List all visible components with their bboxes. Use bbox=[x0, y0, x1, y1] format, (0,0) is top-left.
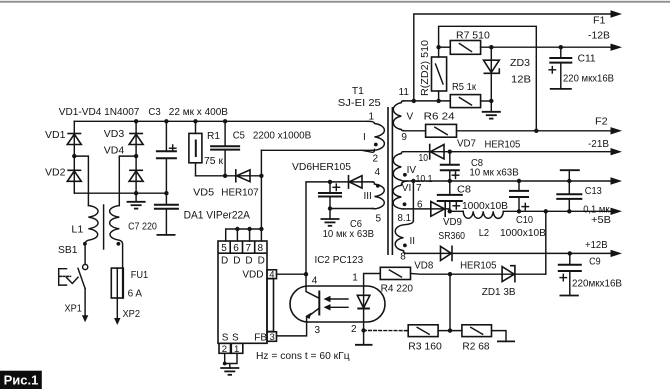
diode VD1 bbox=[67, 133, 81, 135]
wire divider vertical bbox=[449, 274, 451, 330]
svg-text:75 к: 75 к bbox=[204, 155, 223, 167]
wire winding II pin8 row bbox=[405, 252, 612, 254]
svg-text:8.1: 8.1 bbox=[398, 212, 412, 224]
svg-text:S: S bbox=[232, 333, 239, 344]
svg-text:VD2: VD2 bbox=[45, 166, 66, 178]
svg-text:4: 4 bbox=[375, 167, 381, 178]
zener ZD1 bbox=[502, 267, 514, 282]
svg-text:XP1: XP1 bbox=[65, 303, 82, 315]
wire F2 output bbox=[457, 130, 612, 132]
resistor R3 bbox=[407, 330, 408, 332]
resistor R(ZD2) 510 bbox=[438, 47, 440, 101]
ground (DA1 source) bbox=[220, 367, 239, 369]
wire F1 output bbox=[414, 14, 611, 101]
svg-text:D: D bbox=[258, 255, 265, 266]
node R4/R3 junction bbox=[448, 272, 452, 276]
svg-text:R2 68: R2 68 bbox=[462, 340, 489, 352]
node AC1 bbox=[72, 154, 76, 158]
plug XP1 bbox=[84, 289, 86, 317]
resistor R5 bbox=[450, 95, 480, 108]
svg-text:12В: 12В bbox=[511, 74, 531, 86]
resistor R7 bbox=[436, 45, 440, 49]
svg-text:C8: C8 bbox=[457, 183, 471, 195]
svg-text:7: 7 bbox=[416, 183, 422, 194]
terminal bar (opto pin2) bbox=[363, 330, 365, 344]
DA1 pin 1 box bbox=[231, 343, 243, 353]
svg-text:F2: F2 bbox=[595, 116, 608, 128]
winding VI (pins 7-6) bbox=[393, 181, 407, 209]
svg-text:VD8: VD8 bbox=[414, 260, 433, 272]
svg-text:1: 1 bbox=[369, 112, 375, 123]
svg-text:22 мк x 400В: 22 мк x 400В bbox=[169, 106, 228, 118]
node AC2 bbox=[134, 154, 138, 158]
wire dashed opto to R3 bbox=[364, 330, 407, 332]
svg-text:R1: R1 bbox=[207, 130, 220, 142]
svg-text:-12В: -12В bbox=[588, 30, 610, 42]
wire +5V rail bbox=[450, 210, 611, 212]
winding IV (pins 10-10.1) bbox=[393, 152, 403, 181]
wire DA1 drain pin bus bbox=[226, 229, 262, 241]
svg-text:HER105: HER105 bbox=[460, 260, 497, 272]
DA1 pin 3 box bbox=[267, 332, 277, 342]
DA1 right edge rectangle bbox=[267, 279, 274, 332]
svg-text:FU1: FU1 bbox=[131, 269, 149, 281]
svg-text:IC2 PC123: IC2 PC123 bbox=[315, 254, 364, 266]
wire bottom bus bbox=[74, 192, 166, 194]
svg-text:2: 2 bbox=[351, 324, 357, 335]
node VDD-opto pin4 bbox=[304, 272, 308, 276]
wire DA1 pin4 to opto pin4 bbox=[277, 274, 307, 286]
svg-text:0,1 мк: 0,1 мк bbox=[583, 204, 610, 216]
node bus-VD3 bbox=[134, 119, 138, 123]
svg-text:8: 8 bbox=[258, 243, 264, 254]
transformer core bbox=[387, 107, 389, 255]
inductor L2 bbox=[463, 211, 503, 218]
svg-text:XP2: XP2 bbox=[123, 308, 141, 320]
ground (C6) bbox=[329, 209, 331, 220]
resistor R1 bbox=[193, 119, 197, 123]
svg-text:1: 1 bbox=[352, 273, 358, 284]
wire primary return y150 bbox=[261, 149, 372, 151]
wire drain vertical bbox=[260, 150, 262, 229]
svg-text:ZD1 3В: ZD1 3В bbox=[482, 286, 516, 298]
svg-text:-21В: -21В bbox=[588, 138, 609, 150]
wire +5V sense to ZD1 bbox=[545, 211, 547, 274]
wire bridge right column bbox=[135, 121, 137, 193]
svg-text:C13: C13 bbox=[585, 185, 602, 197]
diode VD4 bbox=[129, 169, 143, 171]
svg-text:10 мк x 63В: 10 мк x 63В bbox=[323, 228, 374, 240]
wire winding IV pin10 row bbox=[404, 151, 612, 153]
wire opto pin3 to DA1 FB bbox=[277, 322, 307, 336]
svg-text:VD9: VD9 bbox=[443, 216, 462, 228]
ground (ZD3/R5) bbox=[482, 111, 501, 113]
diode VD3 bbox=[129, 133, 143, 135]
wire AC1 to L1 bbox=[74, 156, 88, 205]
capacitor C9 bbox=[568, 251, 572, 255]
svg-text:I: I bbox=[363, 132, 366, 143]
svg-text:R5 1к: R5 1к bbox=[452, 81, 476, 93]
node C6 top bbox=[328, 180, 332, 184]
svg-text:VD5: VD5 bbox=[193, 187, 214, 199]
svg-text:C7 220: C7 220 bbox=[128, 221, 157, 233]
wire winding III pin5 to ground node bbox=[330, 208, 373, 210]
svg-text:3: 3 bbox=[270, 332, 275, 343]
svg-text:C9: C9 bbox=[589, 256, 601, 268]
svg-text:D: D bbox=[221, 255, 228, 266]
svg-text:1000x10В: 1000x10В bbox=[500, 227, 546, 239]
svg-text:C11: C11 bbox=[578, 53, 596, 65]
svg-text:1000x10В: 1000x10В bbox=[462, 200, 508, 212]
node bottom-bus VD4 bbox=[134, 191, 138, 195]
svg-text:2200 x1000В: 2200 x1000В bbox=[253, 130, 311, 142]
diode VD2 bbox=[67, 169, 81, 171]
capacitor C13 bbox=[560, 169, 580, 171]
svg-text:10 мк x63В: 10 мк x63В bbox=[469, 166, 518, 178]
svg-text:L1: L1 bbox=[71, 224, 83, 236]
wire F2 loop top bbox=[439, 26, 537, 131]
capacitor C10 bbox=[518, 181, 520, 211]
svg-text:Hz = cons t = 60 кГц: Hz = cons t = 60 кГц bbox=[256, 350, 350, 362]
node R3/R2 bbox=[438, 330, 462, 332]
figure caption bbox=[0, 371, 42, 389]
DA1 pin 4 box bbox=[267, 270, 277, 279]
resistor R4 bbox=[380, 267, 410, 279]
svg-text:VD6HER105: VD6HER105 bbox=[292, 161, 351, 173]
svg-text:R6 24: R6 24 bbox=[424, 110, 455, 122]
svg-text:VD4: VD4 bbox=[104, 145, 125, 157]
wire DA1 source to ground bbox=[225, 353, 237, 368]
svg-text:V: V bbox=[407, 111, 414, 122]
svg-text:VD3: VD3 bbox=[104, 128, 125, 140]
svg-text:220 мкх16В: 220 мкх16В bbox=[563, 73, 614, 85]
ground (bridge negative) bbox=[135, 193, 137, 202]
svg-text:VD1: VD1 bbox=[45, 129, 66, 141]
svg-text:220мкх16В: 220мкх16В bbox=[572, 278, 622, 290]
wire snubber row bbox=[196, 175, 262, 177]
svg-text:SJ-EI 25: SJ-EI 25 bbox=[338, 97, 381, 109]
svg-text:4: 4 bbox=[312, 275, 318, 286]
wire AC2 to L1 bbox=[119, 156, 136, 205]
DA1 pin 2 box bbox=[219, 343, 231, 353]
zener ZD3 bbox=[489, 45, 493, 49]
svg-text:10: 10 bbox=[419, 152, 429, 164]
svg-text:T1: T1 bbox=[352, 85, 364, 97]
capacitor C3 bbox=[164, 119, 168, 123]
svg-text:R(ZD2) 510: R(ZD2) 510 bbox=[419, 40, 431, 96]
svg-text:VD7: VD7 bbox=[457, 138, 476, 150]
opto IC2 body bbox=[290, 286, 385, 322]
diode VD7 bbox=[429, 144, 431, 160]
svg-text:FB: FB bbox=[254, 333, 267, 344]
svg-text:D: D bbox=[233, 255, 240, 266]
svg-text:6 A: 6 A bbox=[128, 287, 142, 299]
svg-text:HER107: HER107 bbox=[221, 187, 259, 199]
svg-text:9: 9 bbox=[401, 132, 407, 143]
svg-text:ZD3: ZD3 bbox=[510, 57, 530, 69]
svg-text:Рис.1: Рис.1 bbox=[4, 373, 39, 388]
opto coupling arrows bbox=[329, 298, 348, 300]
terminal bar (R2) bbox=[492, 331, 507, 342]
capacitor C6 bbox=[329, 182, 331, 209]
svg-text:C5: C5 bbox=[233, 130, 245, 142]
resistor R2 bbox=[462, 325, 492, 337]
svg-text:VI: VI bbox=[402, 183, 411, 194]
svg-text:VD1-VD4 1N4007: VD1-VD4 1N4007 bbox=[59, 106, 140, 118]
diode VD6 bbox=[348, 175, 350, 189]
diode VD5 bbox=[235, 169, 237, 182]
diode VD9 bbox=[404, 209, 450, 211]
svg-text:C3: C3 bbox=[148, 106, 160, 118]
svg-text:VDD: VDD bbox=[242, 270, 263, 281]
svg-text:DA1 VIPer22A: DA1 VIPer22A bbox=[184, 210, 251, 222]
svg-text:R3 160: R3 160 bbox=[408, 340, 442, 352]
svg-text:5: 5 bbox=[376, 213, 382, 224]
node drain bbox=[259, 174, 263, 178]
capacitor C5 bbox=[223, 119, 227, 123]
wire R4 to ZD1 bbox=[411, 273, 546, 276]
plug XP2 bbox=[114, 318, 120, 325]
capacitor C8 (second) bbox=[449, 181, 451, 211]
wire 0V rail bbox=[404, 180, 612, 182]
svg-text:7: 7 bbox=[246, 243, 252, 254]
svg-text:+12В: +12В bbox=[585, 239, 608, 251]
svg-text:HER105: HER105 bbox=[485, 139, 521, 151]
wire winding III to VD6 node bbox=[306, 182, 373, 274]
svg-text:6: 6 bbox=[233, 243, 239, 254]
diode VD8 bbox=[441, 246, 452, 260]
wire top bus +310V bbox=[74, 120, 368, 122]
wire bridge left column bbox=[73, 121, 75, 193]
winding I (primary, pins 1-2) bbox=[362, 121, 384, 152]
svg-text:D: D bbox=[245, 255, 252, 266]
choke L1 bbox=[85, 206, 98, 265]
svg-text:S: S bbox=[222, 333, 229, 344]
wire -12V rail bbox=[481, 46, 611, 48]
wire opto pin1 to R4 bbox=[364, 274, 381, 287]
svg-text:SB1: SB1 bbox=[58, 244, 78, 256]
fuse FU1 bbox=[116, 298, 118, 319]
svg-text:II: II bbox=[410, 236, 416, 247]
svg-text:L2: L2 bbox=[479, 227, 490, 239]
svg-text:C10: C10 bbox=[516, 214, 533, 226]
capacitor C7 bbox=[165, 193, 167, 235]
svg-text:2: 2 bbox=[373, 154, 379, 165]
capacitor C8 (first) bbox=[448, 150, 452, 154]
svg-text:III: III bbox=[364, 191, 372, 202]
svg-text:F1: F1 bbox=[593, 14, 606, 26]
svg-text:11: 11 bbox=[399, 87, 410, 98]
DA1 body bbox=[218, 241, 267, 343]
svg-text:R7 510: R7 510 bbox=[456, 30, 490, 42]
svg-text:SR360: SR360 bbox=[438, 230, 465, 242]
opto phototransistor bbox=[306, 286, 319, 322]
svg-text:5: 5 bbox=[221, 243, 227, 254]
wire pin11 row bbox=[404, 100, 451, 102]
svg-text:R4 220: R4 220 bbox=[381, 282, 414, 294]
wire tap 10.1 to 8.1 bbox=[412, 181, 414, 221]
svg-text:+5В: +5В bbox=[591, 214, 611, 226]
resistor R6 bbox=[404, 130, 426, 132]
capacitor C11 bbox=[559, 45, 563, 49]
svg-text:3: 3 bbox=[315, 325, 321, 336]
